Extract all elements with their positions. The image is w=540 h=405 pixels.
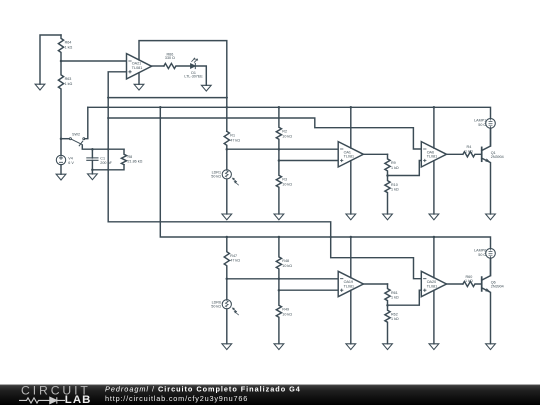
resistor R4 (463, 152, 482, 157)
resistor R1 (224, 131, 229, 149)
node battery junction (60, 137, 63, 140)
wire OA1 output (363, 153, 387, 155)
svg-text:330 Ω: 330 Ω (165, 56, 175, 60)
svg-text:R4: R4 (467, 145, 472, 149)
svg-text:50 kΩ: 50 kΩ (211, 305, 221, 309)
node lower rail x330 (330, 236, 332, 238)
svg-text:1 kΩ: 1 kΩ (391, 296, 399, 300)
svg-text:1 kΩ: 1 kΩ (391, 317, 399, 321)
photoresistor LDR1 (226, 149, 228, 170)
svg-text:TL081: TL081 (344, 284, 354, 288)
svg-text:TL081: TL081 (427, 155, 437, 159)
svg-text:R63: R63 (65, 77, 72, 81)
resistor R64 (58, 35, 63, 61)
ground D1 (201, 85, 211, 91)
svg-text:OA21: OA21 (132, 62, 141, 66)
node R47 bottom (226, 278, 229, 281)
resistor R66 (164, 63, 190, 68)
svg-text:R9: R9 (391, 161, 396, 165)
wire divider to OA21 inverting input (61, 60, 127, 62)
resistor R48 (276, 237, 281, 279)
node lower rail x279 (278, 236, 281, 239)
resistor R61 (385, 284, 390, 305)
wire OA19 output (363, 283, 387, 285)
wire OA20 output (447, 283, 463, 285)
svg-text:TL081: TL081 (344, 155, 354, 159)
wire R48 to noninverting node (278, 279, 280, 290)
svg-text:R60: R60 (466, 275, 473, 279)
svg-text:LDR6: LDR6 (212, 300, 221, 304)
node sense x108 on C1 rail (107, 148, 109, 150)
node lower rail x227 (226, 236, 229, 239)
svg-text:1 kΩ: 1 kΩ (65, 45, 73, 49)
svg-text:C1: C1 (100, 157, 105, 161)
svg-text:47 kΩ: 47 kΩ (230, 138, 240, 142)
ground OA21 (134, 84, 144, 90)
svg-text:R49: R49 (282, 308, 289, 312)
OA1 V- pin (350, 161, 352, 214)
capacitor C1 (91, 149, 93, 170)
node lower rail x434 (433, 236, 436, 239)
node sense x160 (159, 221, 161, 223)
transistor Q6 (481, 277, 483, 291)
resistor R9 (385, 154, 390, 175)
ground R49 (274, 344, 284, 350)
node sense x108 bottom rail (107, 169, 109, 171)
svg-text:SW2: SW2 (72, 133, 80, 137)
OA20 V- pin (433, 290, 435, 343)
wire inverting row OA19 (227, 278, 338, 280)
ground V4 (56, 174, 66, 180)
op-amp OA19 (338, 271, 363, 296)
node rail C x160 (159, 117, 161, 119)
node R48 bottom (278, 278, 281, 281)
OA6 V- pin (433, 161, 435, 214)
OA21 V- pin (138, 73, 140, 85)
svg-text:LDR1: LDR1 (212, 170, 221, 174)
resistor R10 (385, 176, 390, 215)
node rail C start (107, 117, 109, 119)
logo schematic line with resistor and diode (19, 397, 65, 403)
svg-text:LTL-307EE: LTL-307EE (184, 74, 203, 78)
resistor R8 (121, 149, 126, 165)
svg-text:LAMP6: LAMP6 (474, 249, 486, 253)
svg-text:R61: R61 (391, 291, 398, 295)
wire noninverting row OA19 (279, 289, 338, 291)
OA19 V- pin (350, 290, 352, 343)
op-amp OA21 (127, 54, 152, 79)
resistor R47 (224, 237, 229, 279)
ground G1 (35, 84, 45, 90)
lamp LAMP6 (486, 249, 496, 259)
svg-text:LAB: LAB (65, 394, 92, 405)
ground R10 (383, 214, 393, 220)
svg-text:R1: R1 (230, 134, 235, 138)
switch SW2 (61, 138, 70, 140)
ground OA19 (346, 344, 356, 350)
node rail B x279 (278, 106, 281, 109)
node noninverting row bottom (278, 289, 281, 292)
wire switch lower throw (82, 145, 124, 149)
wire sense line to OA20 inverting input (108, 222, 421, 279)
node rail A left (107, 96, 109, 98)
svg-text:2N3904: 2N3904 (491, 155, 504, 159)
wire divider to OA20 noninverting (388, 290, 422, 305)
ground R62 (383, 344, 393, 350)
LED D1 (191, 64, 196, 69)
svg-text:LAMP1: LAMP1 (474, 119, 486, 123)
resistor R2 (276, 107, 281, 149)
node divider mid (60, 60, 63, 63)
wire noninverting row OA1 (279, 160, 338, 162)
svg-text:6 V: 6 V (68, 161, 74, 165)
node noninverting row (278, 159, 281, 162)
svg-text:Q6: Q6 (491, 281, 496, 285)
svg-text:10 kΩ: 10 kΩ (282, 312, 292, 316)
rail C sense line to OA6 inverting input (108, 118, 421, 149)
wire OA21 noninverting input (108, 72, 126, 222)
op-amp OA20 (421, 271, 446, 296)
op-amp OA6 (421, 142, 446, 167)
node rail C x227 (226, 117, 228, 119)
OA21 V+ pin wire loop to supply (139, 41, 227, 132)
OA19 V+ pin (350, 237, 352, 278)
photoresistor LDR6 (226, 279, 228, 300)
svg-text:1 kΩ: 1 kΩ (391, 166, 399, 170)
svg-text:R8: R8 (128, 155, 133, 159)
node divider R9 R10 (386, 174, 389, 177)
svg-text:http://circuitlab.com/cfy2u3y9: http://circuitlab.com/cfy2u3y9nu766 (105, 394, 248, 403)
footer bar (0, 385, 540, 405)
lamp LAMP1 (486, 119, 496, 129)
svg-text:OA6: OA6 (427, 150, 434, 154)
svg-text:10 kΩ: 10 kΩ (282, 134, 292, 138)
op-amp OA1 (338, 142, 363, 167)
node divider R61 R62 (386, 304, 389, 307)
svg-text:R3: R3 (282, 178, 287, 182)
svg-text:200 µF: 200 µF (100, 161, 112, 165)
svg-text:10 kΩ: 10 kΩ (282, 264, 292, 268)
ground OA6 (429, 214, 439, 220)
svg-text:50 kΩ: 50 kΩ (211, 175, 221, 179)
svg-text:V4: V4 (68, 157, 73, 161)
svg-text:R64: R64 (65, 41, 72, 45)
svg-text:47 kΩ: 47 kΩ (230, 259, 240, 263)
voltage source V4 (60, 139, 62, 156)
ground OA20 (429, 344, 439, 350)
svg-text:R10: R10 (391, 183, 398, 187)
svg-text:21.86 kΩ: 21.86 kΩ (128, 160, 143, 164)
svg-text:Q1: Q1 (491, 151, 496, 155)
wire OA21 output (152, 65, 164, 67)
node R2 bottom (278, 148, 281, 151)
svg-text:1 kΩ: 1 kΩ (465, 150, 473, 154)
resistor R60 (463, 281, 482, 286)
node lower rail x351 (350, 236, 353, 239)
rail B positive supply (88, 107, 491, 118)
node C1 bottom (91, 169, 94, 172)
wire top-left divider top (40, 35, 61, 84)
svg-text:TL081: TL081 (427, 284, 437, 288)
wire R2 to noninverting node (278, 149, 280, 160)
ground OA1 (346, 214, 356, 220)
node rail B x434 (433, 106, 436, 109)
OA6 V+ pin (433, 107, 435, 148)
svg-text:OA19: OA19 (344, 280, 353, 284)
svg-text:R2: R2 (282, 130, 287, 134)
OA20 V+ pin (433, 237, 435, 278)
resistor R49 (276, 290, 281, 344)
wire supply drop x160 to lower rail (160, 107, 490, 248)
node rail A right (226, 96, 228, 98)
wire inverting row OA1 (227, 148, 338, 150)
LED D1 emission arrows (192, 59, 197, 63)
node R1 bottom (226, 148, 229, 151)
node rail B x160 (159, 106, 162, 109)
resistor R63 (58, 61, 63, 139)
resistor R62 (385, 305, 390, 344)
resistor R3 (276, 161, 281, 215)
ground R3 (274, 214, 284, 220)
node rail B x227 (226, 106, 229, 109)
rail A (sense to supply loop) (108, 97, 227, 99)
svg-text:OA20: OA20 (427, 280, 436, 284)
node rail B x108 (107, 106, 109, 108)
svg-text:1 kΩ: 1 kΩ (391, 188, 399, 192)
OA1 V+ pin (350, 107, 352, 148)
svg-text:TL081: TL081 (132, 66, 142, 70)
ground C1 (91, 170, 93, 174)
svg-text:OA1: OA1 (344, 150, 351, 154)
wire divider to OA6 noninverting (388, 161, 422, 176)
svg-text:50 Ω: 50 Ω (478, 253, 486, 257)
svg-text:2N3904: 2N3904 (491, 285, 504, 289)
transistor Q1 (481, 147, 483, 161)
svg-text:Pedroagml / Circuito Completo: Pedroagml / Circuito Completo Finalizado… (105, 384, 301, 393)
wire OA6 output (447, 153, 463, 155)
svg-text:50 Ω: 50 Ω (478, 123, 486, 127)
svg-text:10 kΩ: 10 kΩ (282, 182, 292, 186)
svg-text:1 kΩ: 1 kΩ (465, 279, 473, 283)
svg-text:R48: R48 (282, 259, 289, 263)
node C1 top (91, 148, 94, 151)
svg-text:R47: R47 (230, 254, 237, 258)
node rail B x351 (350, 106, 353, 109)
ground LDR1 (222, 214, 232, 220)
ground Q1 (486, 214, 496, 220)
ground LDR6 (222, 344, 232, 350)
svg-text:R62: R62 (391, 313, 398, 317)
svg-text:1 kΩ: 1 kΩ (65, 82, 73, 86)
wire C1 to R8 bottom (92, 165, 124, 170)
ground Q6 (486, 344, 496, 350)
